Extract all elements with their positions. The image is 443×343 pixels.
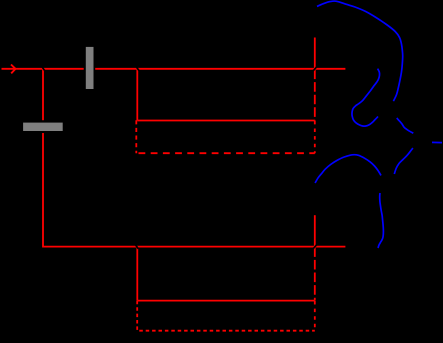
node notch at x315 top bus (313, 67, 317, 71)
nose tick (432, 141, 442, 143)
wire: bottom block solid bottom (137, 300, 314, 302)
wire: bottom block left short-dash + dashed bottom (137, 301, 315, 331)
wire: top block right short-dash (314, 121, 316, 153)
wire: bottom block right short-dash (314, 301, 316, 331)
wire: top bus right segment (95, 68, 345, 70)
node notch at x137 top bus (136, 66, 139, 71)
node notch at x315 bottom bus (313, 245, 317, 249)
wire: top block solid bottom (137, 120, 314, 122)
wire: bottom block right long-dash (314, 247, 316, 300)
wire: bottom bus (136, 246, 345, 248)
wire: top block left short-dash (135, 120, 137, 153)
head outline: crown and forehead (top) (317, 1, 403, 101)
wire: bottom block right stub above bus (314, 215, 316, 246)
second crown arc (bottom) (315, 155, 381, 183)
ear (hook curve) (352, 69, 380, 127)
wire: top block left drop (136, 69, 138, 121)
face line toward nose (397, 118, 414, 133)
neck S-curve (378, 193, 383, 248)
wire: top block right stub above bus (314, 38, 316, 69)
node notch at x136 bottom bus (135, 244, 139, 249)
wire: bottom block left drop (136, 247, 138, 301)
wire: top bus left segment (2, 68, 84, 70)
capacitor C1 plate (vertical gray) (86, 47, 94, 89)
capacitor C2 plate (horizontal gray) (23, 123, 63, 131)
input arrow (11, 65, 16, 74)
wire: left branch upper (42, 69, 44, 120)
wire: top block right long-dash (314, 70, 316, 121)
chin line (394, 148, 413, 174)
wire: left branch lower + corner (43, 133, 136, 247)
wire: top block dashed bottom (138, 152, 315, 154)
node notch at x43 top bus (41, 66, 44, 71)
